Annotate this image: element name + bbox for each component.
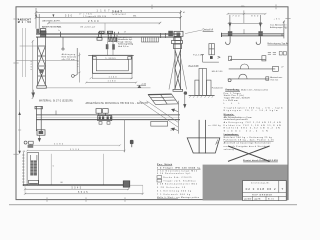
svg-text:300: 300 xyxy=(78,60,80,67)
right dim line mid xyxy=(228,22,263,24)
mast base xyxy=(173,89,183,91)
section inner box xyxy=(96,60,128,71)
svg-text:1160: 1160 xyxy=(108,81,117,83)
plan trolley xyxy=(96,109,112,121)
plan trolley lower marks xyxy=(99,122,110,125)
svg-text:Nutzlast 500 kg + Kettenzug 25: Nutzlast 500 kg + Kettenzug 25 kg xyxy=(224,136,273,139)
bottom ladder column xyxy=(27,153,39,186)
right note 2 lines xyxy=(270,24,287,29)
small boxes right xyxy=(279,52,286,55)
column cap cluster xyxy=(36,29,46,37)
svg-text:ABGEH. MONORAIL: ABGEH. MONORAIL xyxy=(42,25,62,28)
section3 note xyxy=(270,76,282,81)
bottom dim extension lines xyxy=(25,186,143,195)
svg-text:Fundament: Fundament xyxy=(212,87,223,90)
left dim horizontal 2 xyxy=(20,45,39,47)
main beam xyxy=(36,34,181,37)
right caption underlined xyxy=(268,42,289,45)
svg-text:ABSTAND AUFH.: ABSTAND AUFH. xyxy=(42,20,60,23)
right hanger blob 1 xyxy=(228,31,232,35)
svg-text:Maße in mm - Toleranz ±2mm: Maße in mm - Toleranz ±2mm xyxy=(241,89,268,91)
plan hanger tick xyxy=(55,111,57,115)
beam hanger ticks right xyxy=(161,33,166,38)
right hanger centerline 2 xyxy=(259,15,261,32)
column base plate xyxy=(37,86,47,88)
dimension line C xyxy=(47,22,161,24)
right detail dim top xyxy=(227,13,267,15)
svg-text:1140: 1140 xyxy=(109,76,118,78)
svg-text:3 14 Deckenanker kpl.: 3 14 Deckenanker kpl. xyxy=(157,172,191,175)
svg-text:+0,00: +0,00 xyxy=(141,84,147,86)
svg-text:7x381=2667: 7x381=2667 xyxy=(112,14,127,16)
svg-text:Pos. Stück: Pos. Stück xyxy=(157,163,173,166)
drawing frame xyxy=(16,7,288,200)
hanger rod 1 xyxy=(62,37,64,50)
svg-text:Tr 38/245: Tr 38/245 xyxy=(105,57,116,60)
right beam section xyxy=(222,33,284,37)
svg-text:gez. 04.82: gez. 04.82 xyxy=(244,199,251,201)
leader vertical xyxy=(177,101,179,134)
svg-text:Zeichnungs-Nr.: Zeichnungs-Nr. xyxy=(251,182,270,185)
svg-text:7 1 Fahrwerk 500 kg: 7 1 Fahrwerk 500 kg xyxy=(157,193,190,196)
ladder base cluster xyxy=(28,180,38,185)
svg-text:Aufhängung 762 1,24 kN 12: Aufhängung 762 1,24 kN 12,4 kN xyxy=(224,121,281,124)
svg-text:6 1 Kettenzug 500 kg: 6 1 Kettenzug 500 kg xyxy=(157,189,191,192)
foundation dim 60 xyxy=(216,140,220,145)
ground arrow at column xyxy=(32,90,35,97)
svg-text:Maße lt. Werk - vor Montage pr: Maße lt. Werk - vor Montage prüfen xyxy=(157,196,199,199)
bottom ruler line xyxy=(22,152,24,186)
equal symbols xyxy=(268,53,276,55)
svg-text:Decke Stb. C20/25: Decke Stb. C20/25 xyxy=(163,176,192,179)
detail A label xyxy=(203,29,214,32)
svg-text:Endfeld 381 0,62 kN: Endfeld 381 0,62 kN 6,2 kN xyxy=(224,127,280,129)
plan trolley wheels xyxy=(99,116,113,120)
leader diagonals xyxy=(140,101,179,127)
lower left column xyxy=(35,106,45,135)
notes block 2 xyxy=(224,116,281,133)
svg-text:HE-B 140: HE-B 140 xyxy=(212,71,223,73)
rack hatch strip xyxy=(142,37,159,42)
frame tick marks xyxy=(13,4,290,201)
svg-text:Befestigung Typ A: Befestigung Typ A xyxy=(268,42,289,45)
left tall guide lines xyxy=(22,28,25,77)
trolley note text xyxy=(118,36,134,48)
drop rods to section xyxy=(108,41,113,55)
lower left column arrow xyxy=(38,135,40,141)
svg-text:L = 5545 mm: L = 5545 mm xyxy=(224,100,238,102)
hinweis heading xyxy=(224,114,235,116)
dim arrow on line B xyxy=(52,14,54,17)
svg-text:OK +4,50 Lauf: OK +4,50 Lauf xyxy=(80,27,95,29)
section top flange xyxy=(88,54,134,56)
ground bars group xyxy=(195,69,211,96)
left dim horizontal xyxy=(16,60,78,62)
beam tick small xyxy=(118,32,120,35)
section dim 1160 xyxy=(85,82,137,84)
plan dim 2 xyxy=(26,150,126,152)
legend rows xyxy=(157,167,201,176)
mast guy lines xyxy=(169,54,187,89)
legend symbol row 1 xyxy=(157,176,192,179)
plate parallelogram xyxy=(148,94,178,104)
svg-text:+35: +35 xyxy=(274,19,281,21)
svg-text:gepr. Hb: gepr. Hb xyxy=(254,199,260,201)
mid section 1 line xyxy=(229,56,266,61)
mid tick above right beam xyxy=(243,29,245,34)
detail A leader xyxy=(185,30,202,34)
svg-text:Pos.2 IPE: Pos.2 IPE xyxy=(188,66,199,68)
dimension line B xyxy=(35,16,182,18)
svg-text:HOF BREMSE: HOF BREMSE xyxy=(252,195,273,197)
svg-text:T: T xyxy=(281,187,283,191)
left dimension line lower xyxy=(18,100,21,152)
svg-text:1 Tragprofil IPE 120: 1 Tragprofil IPE 120 xyxy=(83,15,107,18)
right detail dim vert xyxy=(243,10,245,23)
shackle blob xyxy=(130,140,134,144)
foundation column xyxy=(199,120,205,153)
svg-text:Eigengew. 26,2 + 10,4 kg/m: Eigengew. 26,2 + 10,4 kg/m xyxy=(224,110,278,112)
svg-text:alle 762 mm: alle 762 mm xyxy=(62,59,75,61)
svg-text:Fahrwerk 18 kg - dyn. Faktor 1: Fahrwerk 18 kg - dyn. Faktor 1,25 xyxy=(224,139,275,142)
table row3 marks xyxy=(244,199,274,201)
hanger rod 2 xyxy=(72,48,78,77)
hoist block hatched xyxy=(108,38,117,42)
svg-text:MATERIAL: St 37-2 (S235JR): MATERIAL: St 37-2 (S235JR) xyxy=(39,100,73,103)
trolley on beam xyxy=(97,31,115,40)
svg-text:550: 550 xyxy=(65,15,73,18)
svg-text:(7 x 762): (7 x 762) xyxy=(79,13,92,15)
svg-text:Bl. 1/1: Bl. 1/1 xyxy=(268,199,274,201)
bottom thin vertical 1 xyxy=(50,154,52,185)
hoist hook blocks xyxy=(106,44,109,49)
svg-text:1 2 Träger IPE 120 5545 l: 1 2 Träger IPE 120 5545 lg. xyxy=(157,167,201,170)
leader arrows xyxy=(172,109,179,131)
right beam end marks xyxy=(282,21,285,39)
bars ground line xyxy=(189,94,215,96)
j-hook 2 xyxy=(256,36,260,44)
top dim extension line right xyxy=(180,10,182,30)
svg-text:Ersetzt durch Zeichn. 02-3-018: Ersetzt durch Zeichn. 02-3-018 xyxy=(243,159,278,162)
svg-text:740: 740 xyxy=(232,15,240,17)
mid section 2 xyxy=(229,64,279,71)
bottom dim 1 xyxy=(24,188,129,190)
bottom thin vertical 2 xyxy=(103,154,105,185)
mid section 3 xyxy=(228,74,269,82)
left support column xyxy=(38,37,46,86)
svg-text:zulässig !: zulässig ! xyxy=(224,149,236,151)
load texts xyxy=(189,54,203,67)
svg-text:Hub 5,0 m: Hub 5,0 m xyxy=(118,46,129,48)
svg-text:860: 860 xyxy=(251,15,259,17)
right hanger centerline 1 xyxy=(229,15,231,32)
svg-text:ca. 600 kg: ca. 600 kg xyxy=(208,125,221,127)
svg-text:Tragfähigkeit 500 kg - t/m: Tragfähigkeit 500 kg - t/m - kg/m xyxy=(224,107,283,110)
column gusset xyxy=(40,69,44,73)
svg-text:Lastannahmen:: Lastannahmen: xyxy=(224,133,239,136)
dimension line A xyxy=(35,11,182,13)
notes block xyxy=(224,92,283,112)
anmerkung heading xyxy=(225,88,268,91)
load callout symbol xyxy=(209,44,215,55)
cross-out X xyxy=(228,146,270,161)
datum flag xyxy=(137,84,147,88)
right mast xyxy=(172,37,183,89)
svg-text:Feldmitte 762 1,18 kN 1: Feldmitte 762 1,18 kN 11,8 kN xyxy=(224,124,281,127)
svg-text:M 1 : 50: M 1 : 50 xyxy=(18,21,32,24)
beam end blobs xyxy=(168,31,183,37)
foundation trapezoid xyxy=(187,138,220,153)
drawing content group xyxy=(9,4,297,204)
top dim extension line left xyxy=(35,8,37,29)
right hanger blob 2 xyxy=(258,31,262,35)
top-left view label xyxy=(18,18,32,23)
svg-text:F=1,5 kN: F=1,5 kN xyxy=(193,54,203,56)
second extension line xyxy=(38,14,40,34)
section corner bolts xyxy=(93,57,131,60)
notes block 3 xyxy=(224,136,275,151)
svg-text:Anschluß an bauseitige Konstru: Anschluß an bauseitige Konstruktion xyxy=(224,142,272,145)
lastannahmen heading xyxy=(224,133,239,136)
beam hanger tick xyxy=(59,32,61,37)
load point circle xyxy=(184,91,187,94)
anchor cluster left xyxy=(24,141,33,148)
top extension arrowhead xyxy=(35,15,37,18)
plumb line xyxy=(124,120,126,153)
plan dim 1 xyxy=(29,144,121,146)
section left dim xyxy=(78,53,80,83)
svg-text:02 3 018 06 2: 02 3 018 06 2 xyxy=(246,187,276,191)
svg-text:b: b xyxy=(59,30,60,32)
replaced note underlined xyxy=(243,159,278,162)
gray redaction block xyxy=(203,165,288,201)
section dim 240 xyxy=(90,73,133,79)
svg-text:2 14 Gewindestange M12: 2 14 Gewindestange M12 xyxy=(157,169,198,172)
svg-text:762 mm: 762 mm xyxy=(270,80,278,82)
bottom rail xyxy=(23,184,143,186)
rail end block xyxy=(123,181,130,187)
column height dim xyxy=(32,40,34,99)
svg-text:4 28 Sechskantmutter M12: 4 28 Sechskantmutter M12 xyxy=(157,183,198,186)
trolley side tick xyxy=(116,35,118,43)
svg-text:umlaufend geschweißt: umlaufend geschweißt xyxy=(224,118,248,121)
bars ground hatch xyxy=(189,95,213,98)
hanger note text xyxy=(62,53,77,61)
section outer box xyxy=(93,55,133,73)
bottom dim 2 xyxy=(24,193,144,195)
sheet shadow xyxy=(9,204,297,206)
ground line mid xyxy=(45,87,151,89)
legend rows 2 xyxy=(157,183,199,199)
svg-text:ABGEHÄNGTE MONORAIL HB 500 KG: ABGEHÄNGTE MONORAIL HB 500 KG - ANSICHT xyxy=(86,102,150,105)
title table xyxy=(243,181,287,201)
lower beam centerline xyxy=(36,116,180,118)
svg-text:Träger vorh. Stahlbau: Träger vorh. Stahlbau xyxy=(163,180,195,183)
plate arrow xyxy=(184,95,186,108)
legend symbol row 2 xyxy=(157,179,195,182)
lower beam xyxy=(36,115,180,120)
j-hook 1 xyxy=(226,36,230,44)
extension tick 2500 xyxy=(104,23,106,34)
plan small rect xyxy=(151,121,168,126)
svg-text:5 28 Scheibe 13: 5 28 Scheibe 13 xyxy=(157,187,186,189)
legend heading xyxy=(157,163,173,166)
